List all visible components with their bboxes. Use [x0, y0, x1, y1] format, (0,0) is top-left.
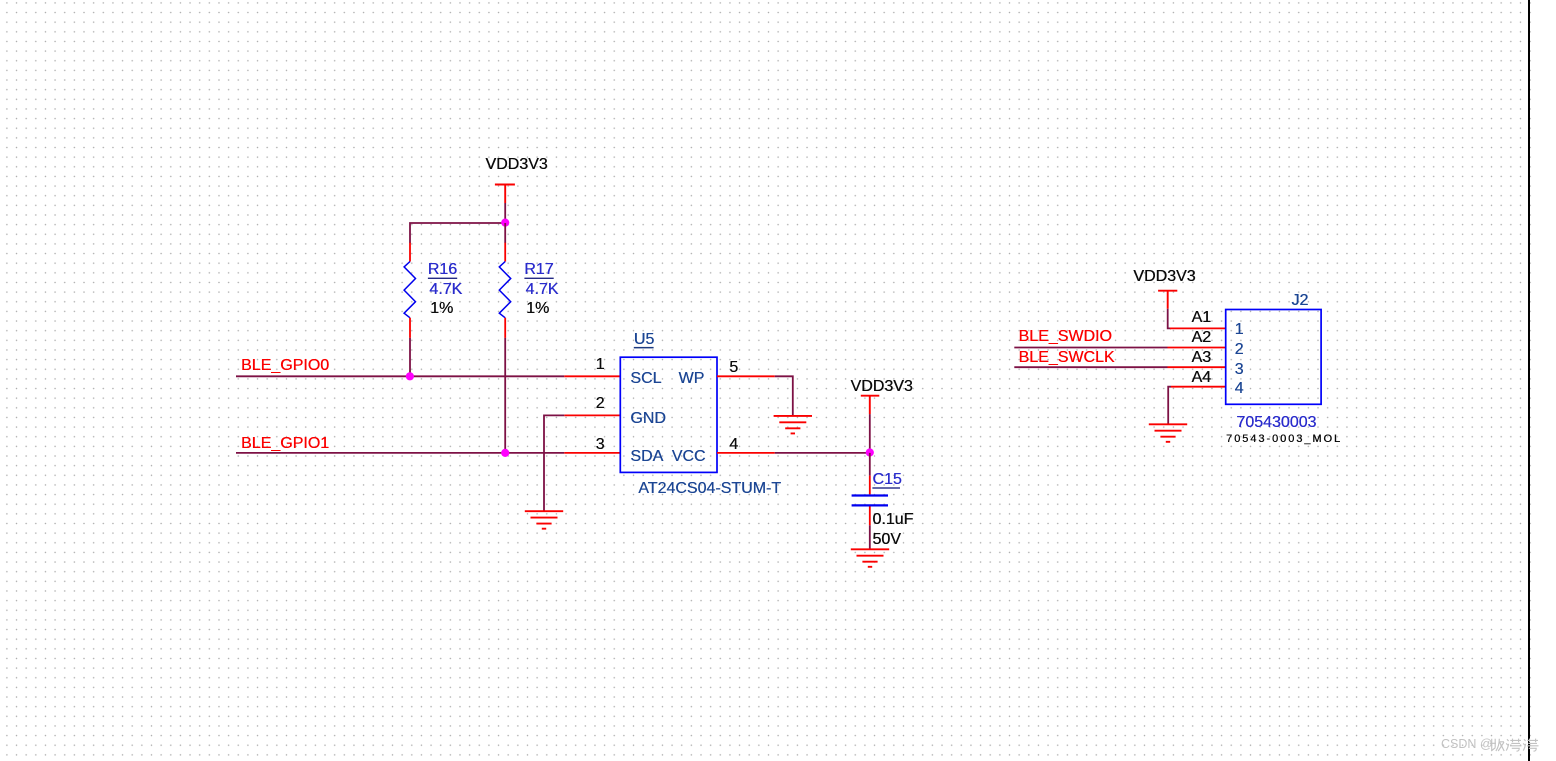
wire net BLE_GPIO0: [236, 375, 564, 377]
power VDD3V3 (C15): [861, 396, 880, 414]
resistor R16 pin top: [409, 243, 411, 262]
pin name A3: [1192, 350, 1212, 366]
wire net BLE_GPIO1: [236, 452, 564, 454]
capacitor C15 pin bottom: [869, 506, 871, 525]
watermark hanzi wan (2): [1523, 739, 1538, 752]
ground (U5 GND): [525, 511, 563, 529]
net label BLE_GPIO1: [241, 436, 329, 452]
node junction R16 bottom: [406, 372, 414, 380]
pin number 4: [729, 437, 738, 453]
resistor R17 pin wire top: [504, 223, 506, 243]
resistor R16 pin bottom: [409, 318, 411, 338]
wire net BLE_SWDIO: [1014, 347, 1167, 349]
wire WP to ground: [775, 376, 793, 416]
node junction C15: [866, 448, 874, 456]
power VDD3V3 (J2): [1158, 291, 1177, 309]
label C15 voltage 50V: [872, 532, 900, 548]
label R17: [524, 262, 553, 278]
net label BLE_SWDIO: [1019, 329, 1112, 345]
wire branch to R16: [410, 223, 505, 243]
capacitor C15 plates: [852, 496, 888, 506]
pin name A4: [1192, 370, 1212, 386]
resistor R17 pin bottom: [504, 318, 506, 338]
pin 3 SDA stub: [564, 452, 620, 454]
watermark CSDN: [1441, 738, 1493, 751]
wire net BLE_SWCLK: [1014, 366, 1167, 368]
pin 3 J2 stub: [1168, 366, 1226, 368]
wire node to C15: [869, 453, 871, 476]
label C15: [872, 472, 901, 488]
pin number 5: [729, 360, 738, 376]
label AT24CS04-STUM-T: [638, 481, 781, 497]
node junction R17 top: [501, 219, 509, 227]
underline C15: [872, 487, 900, 488]
label R17 tolerance 1%: [526, 301, 549, 317]
op-amp U1 substitute: IC U5 body: [620, 357, 717, 472]
pin number 2 (J2): [1235, 342, 1244, 358]
label R16 tolerance 1%: [430, 301, 453, 317]
wire power to junction: [504, 203, 506, 223]
label VDD3V3 (C15 power): [851, 379, 913, 395]
wire R17 to BLE_GPIO1: [504, 338, 506, 453]
pin name VCC: [672, 449, 706, 465]
pin number 3 (J2): [1235, 362, 1244, 378]
label VDD3V3 (left power): [485, 157, 547, 173]
ground (J2): [1149, 424, 1187, 442]
node junction R17 bottom: [501, 449, 509, 457]
resistor R16: [404, 262, 415, 318]
label VDD3V3 (J2 power): [1133, 269, 1195, 285]
pin name SCL: [630, 371, 661, 387]
label C15 value 0.1uF: [872, 512, 913, 528]
pin number 1: [596, 357, 605, 373]
wire R16 to BLE_GPIO0: [409, 338, 411, 376]
pin number 3: [596, 437, 605, 453]
wire J2 pin4 to ground: [1168, 387, 1171, 425]
pin 1 J2 stub: [1170, 327, 1226, 329]
label R16: [428, 262, 457, 278]
pin name A2: [1192, 330, 1212, 346]
watermark hanzi shou: [1490, 739, 1505, 751]
label 70543-0003_MOL: [1226, 434, 1342, 445]
power VDD3V3 (left): [495, 185, 515, 204]
pin 2 GND stub: [564, 414, 620, 416]
pin number 2: [596, 396, 605, 412]
watermark hanzi wan (1): [1506, 739, 1521, 752]
pin 5 WP stub: [717, 375, 775, 377]
underline R17: [524, 278, 553, 279]
pin 4 J2 stub: [1171, 386, 1226, 388]
ground (WP): [774, 416, 812, 434]
pin number 4 (J2): [1235, 381, 1244, 397]
pin name WP: [679, 371, 705, 387]
label J2: [1291, 293, 1308, 309]
pin name A1: [1192, 310, 1212, 326]
label 705430003: [1236, 415, 1316, 431]
pin name SDA: [630, 449, 663, 465]
ground (C15): [851, 549, 889, 567]
label U5: [634, 332, 654, 348]
pin 2 J2 stub: [1168, 347, 1226, 349]
wire power to J2 pin1: [1168, 309, 1171, 329]
wire power to VCC node: [869, 414, 871, 453]
label R16 value 4.7K: [429, 282, 462, 298]
resistor R17: [499, 262, 510, 318]
pin 4 VCC stub: [717, 452, 775, 454]
resistor R17 pin top: [504, 243, 506, 262]
connector J2 body: [1226, 310, 1321, 405]
underline U5: [634, 347, 654, 349]
pin name GND: [630, 411, 666, 427]
pin number 1 (J2): [1235, 322, 1244, 338]
wire GND pin to ground: [544, 415, 564, 511]
label R17 value 4.7K: [526, 282, 559, 298]
capacitor C15 pin top: [869, 476, 871, 495]
pin 1 SCL stub: [564, 375, 620, 377]
net label BLE_GPIO0: [241, 358, 329, 374]
underline R16: [428, 278, 457, 279]
wire C15 to ground: [869, 525, 871, 549]
net label BLE_SWCLK: [1019, 350, 1115, 366]
wire VCC to C15 node: [775, 452, 870, 454]
